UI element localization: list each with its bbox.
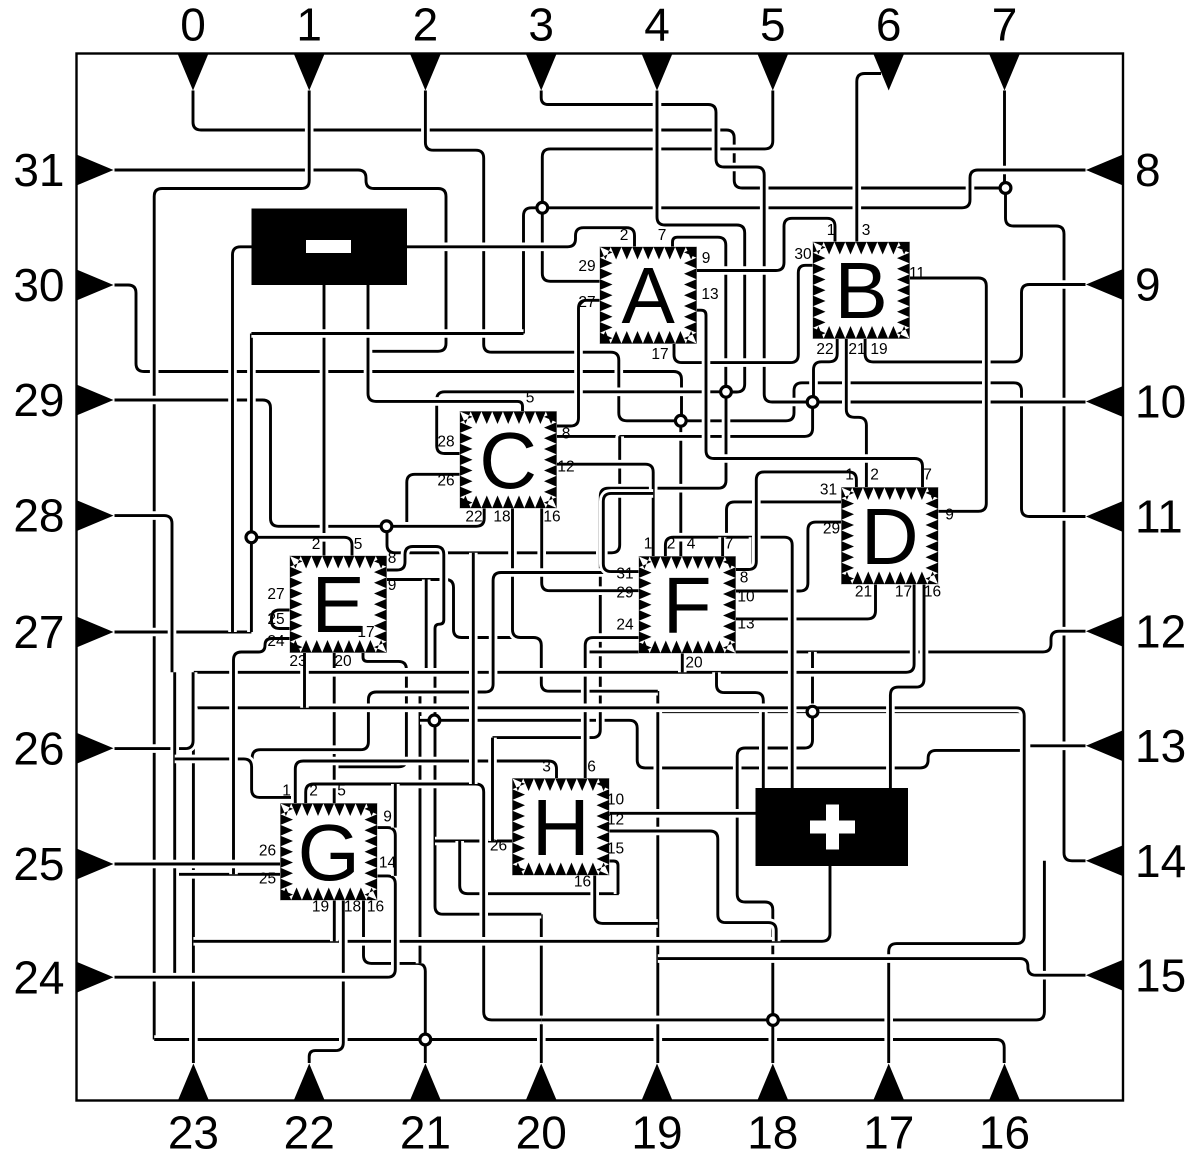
pad 15	[1086, 960, 1123, 991]
svg-text:27: 27	[267, 586, 284, 603]
pad 6	[873, 54, 904, 91]
wire B11-D9	[909, 278, 986, 511]
svg-text:11: 11	[1135, 491, 1183, 543]
wire E27-E25 U	[272, 610, 291, 629]
wire circ435 S	[435, 721, 541, 914]
wire H3 net	[295, 761, 556, 804]
svg-text:28: 28	[13, 490, 64, 542]
wire pin6-B3	[857, 74, 881, 243]
svg-text:5: 5	[354, 536, 363, 553]
wire A29 branch	[542, 208, 600, 281]
svg-text:14: 14	[379, 855, 397, 872]
pad 20	[526, 1064, 557, 1101]
svg-text:5: 5	[760, 0, 786, 51]
wire D1-F8	[736, 472, 857, 570]
svg-text:7: 7	[923, 467, 932, 484]
svg-text:16: 16	[543, 509, 560, 526]
wire pin7-pin14 trunk	[1006, 188, 1086, 861]
wire C18 jog	[513, 508, 658, 692]
pad 31	[77, 155, 114, 186]
wire H15 hook	[609, 861, 618, 894]
svg-text:18: 18	[493, 509, 510, 526]
junction	[537, 202, 548, 213]
svg-text:1: 1	[644, 536, 653, 553]
wire H12 jog	[609, 831, 776, 941]
junction	[807, 706, 818, 717]
wire pin0 net	[193, 91, 1006, 189]
wire E24 link	[234, 639, 291, 875]
wire F2-F7-F8 line	[665, 537, 792, 788]
wire pad19 riser	[653, 691, 662, 1063]
svg-text:24: 24	[616, 617, 634, 634]
junction	[246, 532, 257, 543]
wire A13-D7	[696, 310, 923, 487]
svg-text:11: 11	[909, 265, 925, 282]
wire C26 link	[407, 474, 460, 526]
wire minus-E2	[320, 285, 329, 556]
wire rail672	[194, 584, 914, 672]
svg-text:22: 22	[465, 509, 482, 526]
wire E20-G5	[330, 653, 339, 804]
svg-text:20: 20	[516, 1107, 567, 1156]
svg-text:12: 12	[557, 459, 574, 476]
junction	[768, 1015, 779, 1026]
wire C12-F1	[556, 464, 653, 556]
svg-text:30: 30	[13, 259, 64, 311]
svg-text:9: 9	[945, 507, 954, 524]
svg-text:25: 25	[13, 838, 64, 890]
wire B22 drop	[814, 339, 838, 403]
svg-text:9: 9	[702, 250, 711, 267]
wire F31 link	[603, 493, 653, 571]
svg-text:B: B	[835, 246, 888, 335]
svg-text:F: F	[663, 561, 712, 650]
svg-text:3: 3	[528, 0, 554, 51]
svg-text:1: 1	[296, 0, 322, 51]
svg-text:31: 31	[820, 482, 837, 499]
wire jog749	[252, 573, 603, 798]
svg-text:6: 6	[587, 759, 596, 776]
svg-text:8: 8	[562, 426, 571, 443]
junction	[429, 715, 440, 726]
pad 28	[77, 500, 114, 531]
svg-text:2: 2	[870, 467, 879, 484]
pad 27	[77, 617, 114, 648]
junction	[675, 415, 686, 426]
wire E5 branch	[251, 537, 352, 556]
svg-text:8: 8	[740, 570, 749, 587]
svg-text:19: 19	[312, 899, 329, 916]
pad 19	[642, 1064, 673, 1101]
svg-text:22: 22	[284, 1107, 335, 1156]
junction	[381, 521, 392, 532]
svg-text:4: 4	[644, 0, 670, 51]
wire pin11 net	[681, 383, 1086, 517]
wire pad23 riser	[189, 708, 198, 1063]
svg-text:7: 7	[992, 0, 1018, 51]
wire pin8 net	[524, 170, 1086, 334]
svg-text:13: 13	[737, 616, 754, 633]
wire E5-circ trunk	[247, 334, 256, 633]
chip G	[281, 804, 378, 901]
pad 22	[294, 1064, 325, 1101]
wire pin31 net	[115, 170, 447, 351]
svg-text:12: 12	[1135, 605, 1186, 657]
chip F	[639, 557, 736, 654]
svg-text:13: 13	[701, 286, 718, 303]
pad 30	[77, 270, 114, 301]
pad 21	[410, 1064, 441, 1101]
svg-text:G: G	[298, 808, 360, 897]
svg-text:16: 16	[574, 874, 591, 891]
svg-text:20: 20	[334, 653, 352, 670]
wire pad20 feeder	[537, 914, 546, 1063]
svg-text:18: 18	[344, 899, 361, 916]
svg-text:22: 22	[816, 341, 833, 358]
wire A7 link	[673, 237, 726, 392]
svg-text:9: 9	[388, 577, 397, 594]
wire D21-F13	[736, 584, 876, 619]
wire pin1 trunk	[154, 91, 309, 1040]
pad 0	[178, 54, 209, 91]
pad 17	[873, 1064, 904, 1101]
wire A17-B30	[674, 265, 813, 362]
svg-text:2: 2	[312, 536, 321, 553]
junction	[721, 386, 732, 397]
svg-text:16: 16	[979, 1107, 1030, 1156]
wire H26 link	[435, 837, 513, 846]
pad 1	[294, 54, 325, 91]
wire C28 link	[437, 392, 726, 454]
svg-text:17: 17	[357, 624, 374, 641]
svg-text:13: 13	[1135, 720, 1186, 772]
svg-text:26: 26	[490, 838, 507, 855]
wire G16 jog	[364, 900, 426, 1040]
wire pad24-G14	[115, 876, 396, 977]
wire G9 branch	[377, 828, 395, 876]
wire wA-473 branch	[469, 553, 478, 784]
wire H10-box	[609, 809, 756, 818]
wire pad26 line	[115, 672, 194, 748]
svg-text:D: D	[861, 492, 919, 581]
svg-text:7: 7	[658, 227, 667, 244]
svg-text:8: 8	[1135, 144, 1161, 196]
chip B	[813, 242, 910, 339]
pad 2	[410, 54, 441, 91]
svg-text:26: 26	[437, 473, 454, 490]
svg-text:0: 0	[180, 0, 206, 51]
wire pin7 stub	[1000, 91, 1009, 189]
svg-text:16: 16	[367, 899, 384, 916]
svg-text:31: 31	[13, 144, 64, 196]
svg-text:25: 25	[259, 871, 276, 888]
svg-text:27: 27	[578, 294, 595, 311]
chip C	[460, 412, 557, 509]
wire pin29-C22	[115, 400, 485, 526]
svg-text:27: 27	[13, 606, 64, 658]
svg-text:21: 21	[855, 584, 872, 601]
wire pin13 vert	[813, 712, 1027, 751]
wire H16-pad19	[595, 875, 658, 923]
svg-text:30: 30	[794, 246, 812, 263]
svg-text:10: 10	[737, 589, 755, 606]
svg-text:24: 24	[13, 951, 64, 1003]
wire y333 rail	[251, 329, 523, 338]
wire wireA	[387, 436, 620, 552]
border square	[77, 54, 1124, 1101]
wire C8 entry	[556, 432, 620, 441]
svg-text:9: 9	[383, 809, 392, 826]
wire circT22 W	[658, 707, 813, 716]
svg-text:9: 9	[1135, 259, 1161, 311]
junction	[807, 397, 818, 408]
wire H6H26 vert	[488, 738, 497, 841]
wire G9 stub N	[391, 784, 400, 828]
svg-text:1: 1	[827, 222, 836, 239]
wire D29-F10	[736, 522, 842, 591]
svg-text:19: 19	[631, 1107, 682, 1156]
wire F8 zlink	[736, 537, 754, 570]
wire G25 line	[175, 870, 281, 879]
svg-text:29: 29	[13, 374, 64, 426]
svg-text:23: 23	[168, 1107, 219, 1156]
svg-text:19: 19	[870, 341, 887, 358]
svg-text:29: 29	[578, 258, 595, 275]
wire A27-C8	[556, 300, 600, 426]
svg-text:23: 23	[289, 653, 306, 670]
wire G2 net	[306, 784, 542, 1020]
wire pin28 net	[115, 516, 173, 749]
chip A	[600, 247, 697, 344]
wire jog759	[175, 759, 296, 798]
pad 8	[1086, 155, 1123, 186]
svg-text:8: 8	[388, 550, 397, 567]
svg-text:26: 26	[259, 843, 276, 860]
pad 23	[178, 1064, 209, 1101]
wire B21-D2	[846, 339, 866, 488]
svg-text:24: 24	[267, 633, 285, 650]
wire pad22-G18	[309, 900, 343, 1064]
svg-text:25: 25	[267, 611, 284, 628]
pad 7	[989, 54, 1020, 91]
svg-text:6: 6	[876, 0, 902, 51]
svg-text:2: 2	[620, 227, 629, 244]
wire circT22 N	[808, 652, 817, 712]
pad 25	[77, 849, 114, 880]
svg-text:3: 3	[862, 222, 871, 239]
wire circT22 S	[737, 712, 812, 1063]
wire minus-A2	[407, 228, 635, 247]
svg-text:15: 15	[1135, 949, 1186, 1001]
pad 11	[1086, 501, 1123, 532]
chip H	[513, 779, 610, 876]
svg-text:14: 14	[1135, 835, 1186, 887]
svg-text:21: 21	[400, 1107, 451, 1156]
svg-text:29: 29	[616, 585, 633, 602]
wire circ1 south	[493, 392, 727, 738]
svg-text:29: 29	[823, 521, 840, 538]
svg-text:10: 10	[607, 792, 625, 809]
wire rail y1039	[154, 1040, 1004, 1064]
pad 12	[1086, 616, 1123, 647]
pad 9	[1086, 269, 1123, 300]
wire pin10 link	[813, 398, 1086, 407]
wire minus west	[233, 247, 252, 632]
wire B19-pin9	[865, 285, 1085, 362]
junction	[1000, 183, 1011, 194]
wire rail y652	[585, 631, 1085, 652]
pad 26	[77, 733, 114, 764]
svg-text:2: 2	[667, 536, 676, 553]
svg-text:21: 21	[848, 341, 865, 358]
supply plus box	[756, 788, 909, 866]
svg-text:26: 26	[13, 722, 64, 774]
wire pin30 rail	[115, 285, 682, 421]
wire rail y1020	[541, 861, 1044, 1020]
svg-text:3: 3	[542, 759, 551, 776]
wire minus-C5	[368, 285, 523, 412]
svg-text:7: 7	[725, 536, 734, 553]
wire F4 drop	[676, 421, 685, 557]
wire G19 branch	[330, 900, 339, 942]
wire pin15 line	[658, 959, 1086, 976]
wire D31 link	[727, 502, 842, 537]
wire H15 west	[460, 841, 619, 894]
wire E9 net	[387, 580, 513, 638]
svg-text:2: 2	[309, 783, 318, 800]
wire t420 vert	[416, 692, 425, 963]
wire c435 west stub	[420, 716, 434, 725]
wire F7 stub	[718, 537, 727, 556]
svg-text:C: C	[479, 416, 537, 505]
pad 3	[526, 54, 557, 91]
wire E23 riser	[300, 653, 309, 708]
wire F24-H6	[585, 638, 639, 779]
chip E	[290, 556, 387, 653]
pad 14	[1086, 845, 1123, 876]
svg-text:31: 31	[616, 566, 633, 583]
svg-text:1: 1	[282, 783, 291, 800]
wire pad25-G26	[115, 860, 281, 869]
wire y768 path	[434, 720, 1026, 768]
wire C16-F29	[542, 508, 639, 591]
svg-text:17: 17	[863, 1107, 914, 1156]
svg-text:4: 4	[687, 536, 696, 553]
chip D	[842, 488, 939, 585]
wire D16-box	[890, 584, 924, 788]
wire E9 drop	[422, 580, 431, 673]
svg-text:5: 5	[337, 783, 346, 800]
pad 13	[1086, 730, 1123, 761]
wire pin4 net	[657, 91, 745, 393]
svg-text:17: 17	[651, 346, 668, 363]
wire pad21 stub	[421, 1040, 430, 1064]
svg-text:1: 1	[845, 467, 854, 484]
wire pin3 net	[541, 91, 812, 403]
pad 5	[757, 54, 788, 91]
svg-text:2: 2	[413, 0, 439, 51]
svg-text:17: 17	[895, 584, 912, 601]
wire J2 plus	[717, 672, 764, 788]
pad 4	[642, 54, 673, 91]
pad 24	[77, 962, 114, 993]
pad 29	[77, 385, 114, 416]
pad 16	[989, 1064, 1020, 1101]
wire pin5 net	[542, 91, 773, 208]
wire B1-A9	[696, 218, 835, 270]
wire C8 link	[620, 402, 813, 439]
wire F20 branch	[678, 652, 687, 672]
svg-text:16: 16	[924, 584, 941, 601]
svg-text:28: 28	[437, 434, 454, 451]
wire pad27 line	[115, 628, 252, 637]
wire pin2 net	[425, 91, 680, 421]
svg-text:H: H	[532, 783, 590, 872]
wire E17 net	[334, 653, 406, 767]
svg-text:5: 5	[526, 390, 535, 407]
pad 18	[757, 1064, 788, 1101]
pad 10	[1086, 386, 1123, 417]
svg-text:10: 10	[1135, 376, 1186, 428]
junction	[420, 1034, 431, 1045]
svg-text:20: 20	[685, 655, 703, 672]
svg-text:18: 18	[747, 1107, 798, 1156]
wire G19-box rail	[193, 866, 830, 941]
wire E8 net	[387, 547, 444, 722]
wire pin13 net	[1026, 741, 1086, 750]
wire rail708-pad17	[193, 708, 1024, 1063]
svg-text:12: 12	[607, 812, 624, 829]
supply minus box	[252, 209, 408, 286]
svg-text:15: 15	[607, 841, 624, 858]
svg-text:A: A	[622, 251, 676, 340]
wire t174 trunk	[170, 672, 179, 977]
